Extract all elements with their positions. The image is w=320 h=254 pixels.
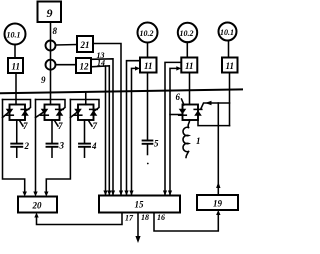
svg-text:11: 11 bbox=[226, 61, 235, 71]
box 11 c bbox=[222, 58, 238, 73]
arrow into box 15 from box11a lower wire bbox=[129, 191, 133, 196]
thyristor module 3 (pair 7) bbox=[74, 105, 97, 121]
wire node9 to box 12 bbox=[56, 64, 77, 66]
wire box11b down to module 6 bbox=[189, 73, 191, 105]
svg-text:1: 1 bbox=[196, 136, 201, 146]
arrow into box 15 from box11b upper wire bbox=[163, 191, 167, 196]
svg-text:17: 17 bbox=[125, 214, 134, 223]
wire through node 9 down to module 2 bbox=[50, 60, 52, 105]
wire box9 to node 8 bbox=[50, 22, 52, 41]
wire to box 11 b bbox=[186, 42, 188, 58]
arrow into box 15 from module 6 gate wire bbox=[168, 191, 172, 196]
svg-text:11: 11 bbox=[144, 61, 153, 71]
svg-text:5: 5 bbox=[154, 139, 159, 149]
wire module6 left gate to box15 bbox=[170, 114, 183, 116]
stray scan dot bbox=[147, 163, 149, 165]
svg-text:14: 14 bbox=[97, 59, 105, 68]
svg-text:9: 9 bbox=[41, 75, 46, 85]
gate wrap module 3 bbox=[70, 100, 99, 112]
gate diagonal module 1 bbox=[3, 112, 10, 118]
inductor 1 bbox=[183, 120, 200, 158]
circle transducer 10.2 b bbox=[178, 23, 197, 42]
sensor circle node 9 bbox=[46, 60, 56, 70]
svg-text:11: 11 bbox=[185, 61, 194, 71]
gate feeder module 1 bbox=[3, 100, 25, 193]
svg-text:8: 8 bbox=[53, 26, 58, 36]
circle transducer 10.1 right bbox=[219, 23, 237, 41]
wire through node 8 bbox=[50, 41, 52, 60]
gate feeder module 3 bbox=[46, 100, 70, 193]
svg-text:3: 3 bbox=[59, 141, 65, 151]
bus line bbox=[0, 89, 243, 93]
wire 14 bbox=[91, 66, 109, 196]
wire circle10.1 to box 11 left bbox=[14, 45, 16, 59]
svg-text:7: 7 bbox=[58, 121, 63, 131]
box 20 bbox=[18, 197, 57, 213]
wire 16 output box15 to box19 bbox=[154, 213, 218, 232]
box 9 bbox=[38, 2, 62, 23]
label 7 module 1 bbox=[20, 121, 29, 132]
arrow into box 15 from box11a upper wire bbox=[124, 191, 128, 196]
wire 14 branch to box15 bbox=[105, 66, 107, 196]
svg-text:10.1: 10.1 bbox=[7, 31, 21, 40]
svg-text:18: 18 bbox=[141, 213, 149, 222]
wire to box11a lower with arrow bbox=[132, 68, 137, 195]
wire box11 left to module 1 bbox=[15, 73, 17, 105]
wire 18 output arrow down bbox=[137, 213, 139, 239]
wire to box11b lower with arrow bbox=[170, 68, 178, 195]
arrow into box 15 from wire 14 branch bbox=[107, 191, 111, 196]
svg-text:19: 19 bbox=[213, 199, 223, 209]
arrow into box 15 from wire 13 bbox=[111, 191, 115, 196]
label 7 module 3 bbox=[89, 121, 98, 132]
svg-text:15: 15 bbox=[135, 200, 145, 210]
sensor circle node 8 bbox=[46, 41, 56, 51]
circle transducer 10.1 left bbox=[5, 24, 26, 45]
capacitor 3 bbox=[47, 120, 65, 157]
wire box11a down to capacitor 5 bbox=[147, 73, 149, 141]
svg-text:7: 7 bbox=[23, 121, 28, 131]
wire box11c down crossing bus to module 6 right feed bbox=[229, 73, 231, 126]
svg-text:9: 9 bbox=[47, 6, 53, 20]
wire to box 11 c bbox=[228, 41, 230, 58]
wire bus hook right to module 6 bbox=[201, 103, 230, 109]
thyristor module 1 (pair 7) bbox=[6, 105, 29, 121]
wire box 19 up to module 6 feed bbox=[217, 103, 219, 195]
wire module6 bottom right return bbox=[198, 120, 230, 126]
box 15 bbox=[99, 196, 180, 213]
svg-text:10.2: 10.2 bbox=[180, 29, 194, 38]
wire to box11b upper bbox=[165, 62, 181, 195]
box 11 a bbox=[140, 58, 157, 73]
capacitor 2 bbox=[11, 120, 29, 157]
wire box21 output to box15 bbox=[93, 44, 121, 196]
gate diagonal module 3 bbox=[70, 112, 78, 118]
wire to box 11 a bbox=[147, 43, 149, 58]
wire node8 to box 21 bbox=[56, 44, 78, 47]
svg-text:21: 21 bbox=[80, 40, 90, 50]
arrow into box 15 from box 21 bbox=[119, 191, 123, 196]
wire bus to module 3 top bbox=[85, 92, 87, 105]
label 7 module 2 bbox=[55, 121, 64, 132]
gate wrap module 1 bbox=[3, 100, 31, 112]
svg-text:16: 16 bbox=[157, 213, 165, 222]
box 11 left bbox=[8, 58, 23, 73]
svg-text:12: 12 bbox=[80, 62, 90, 72]
circle transducer 10.2 a bbox=[138, 23, 158, 43]
arrow into box 15 from wire 14 bbox=[103, 191, 107, 196]
svg-text:2: 2 bbox=[24, 141, 30, 151]
label 6 bbox=[176, 92, 185, 105]
wire 13 bbox=[91, 59, 113, 196]
box 12 bbox=[76, 58, 91, 73]
svg-text:6: 6 bbox=[176, 92, 181, 102]
svg-text:4: 4 bbox=[91, 141, 97, 151]
capacitor 5 bbox=[143, 139, 159, 155]
svg-text:11: 11 bbox=[12, 62, 21, 72]
svg-text:10.1: 10.1 bbox=[220, 28, 234, 37]
wire 17 output box15 to box20 bbox=[37, 213, 123, 225]
box 19 bbox=[197, 195, 238, 210]
svg-text:20: 20 bbox=[32, 201, 43, 211]
box 11 b bbox=[181, 58, 197, 73]
svg-text:10.2: 10.2 bbox=[140, 29, 154, 38]
thyristor module 6 bbox=[179, 105, 202, 121]
gate wrap module 2 bbox=[36, 100, 66, 112]
capacitor 4 bbox=[79, 120, 97, 157]
gate feeder module 2 bbox=[35, 100, 37, 193]
wire to box11a upper bbox=[127, 61, 141, 196]
box 21 bbox=[77, 36, 93, 52]
gate diagonal module 2 bbox=[36, 112, 45, 118]
svg-text:7: 7 bbox=[93, 121, 98, 131]
thyristor module 2 (pair 7) bbox=[41, 105, 64, 121]
